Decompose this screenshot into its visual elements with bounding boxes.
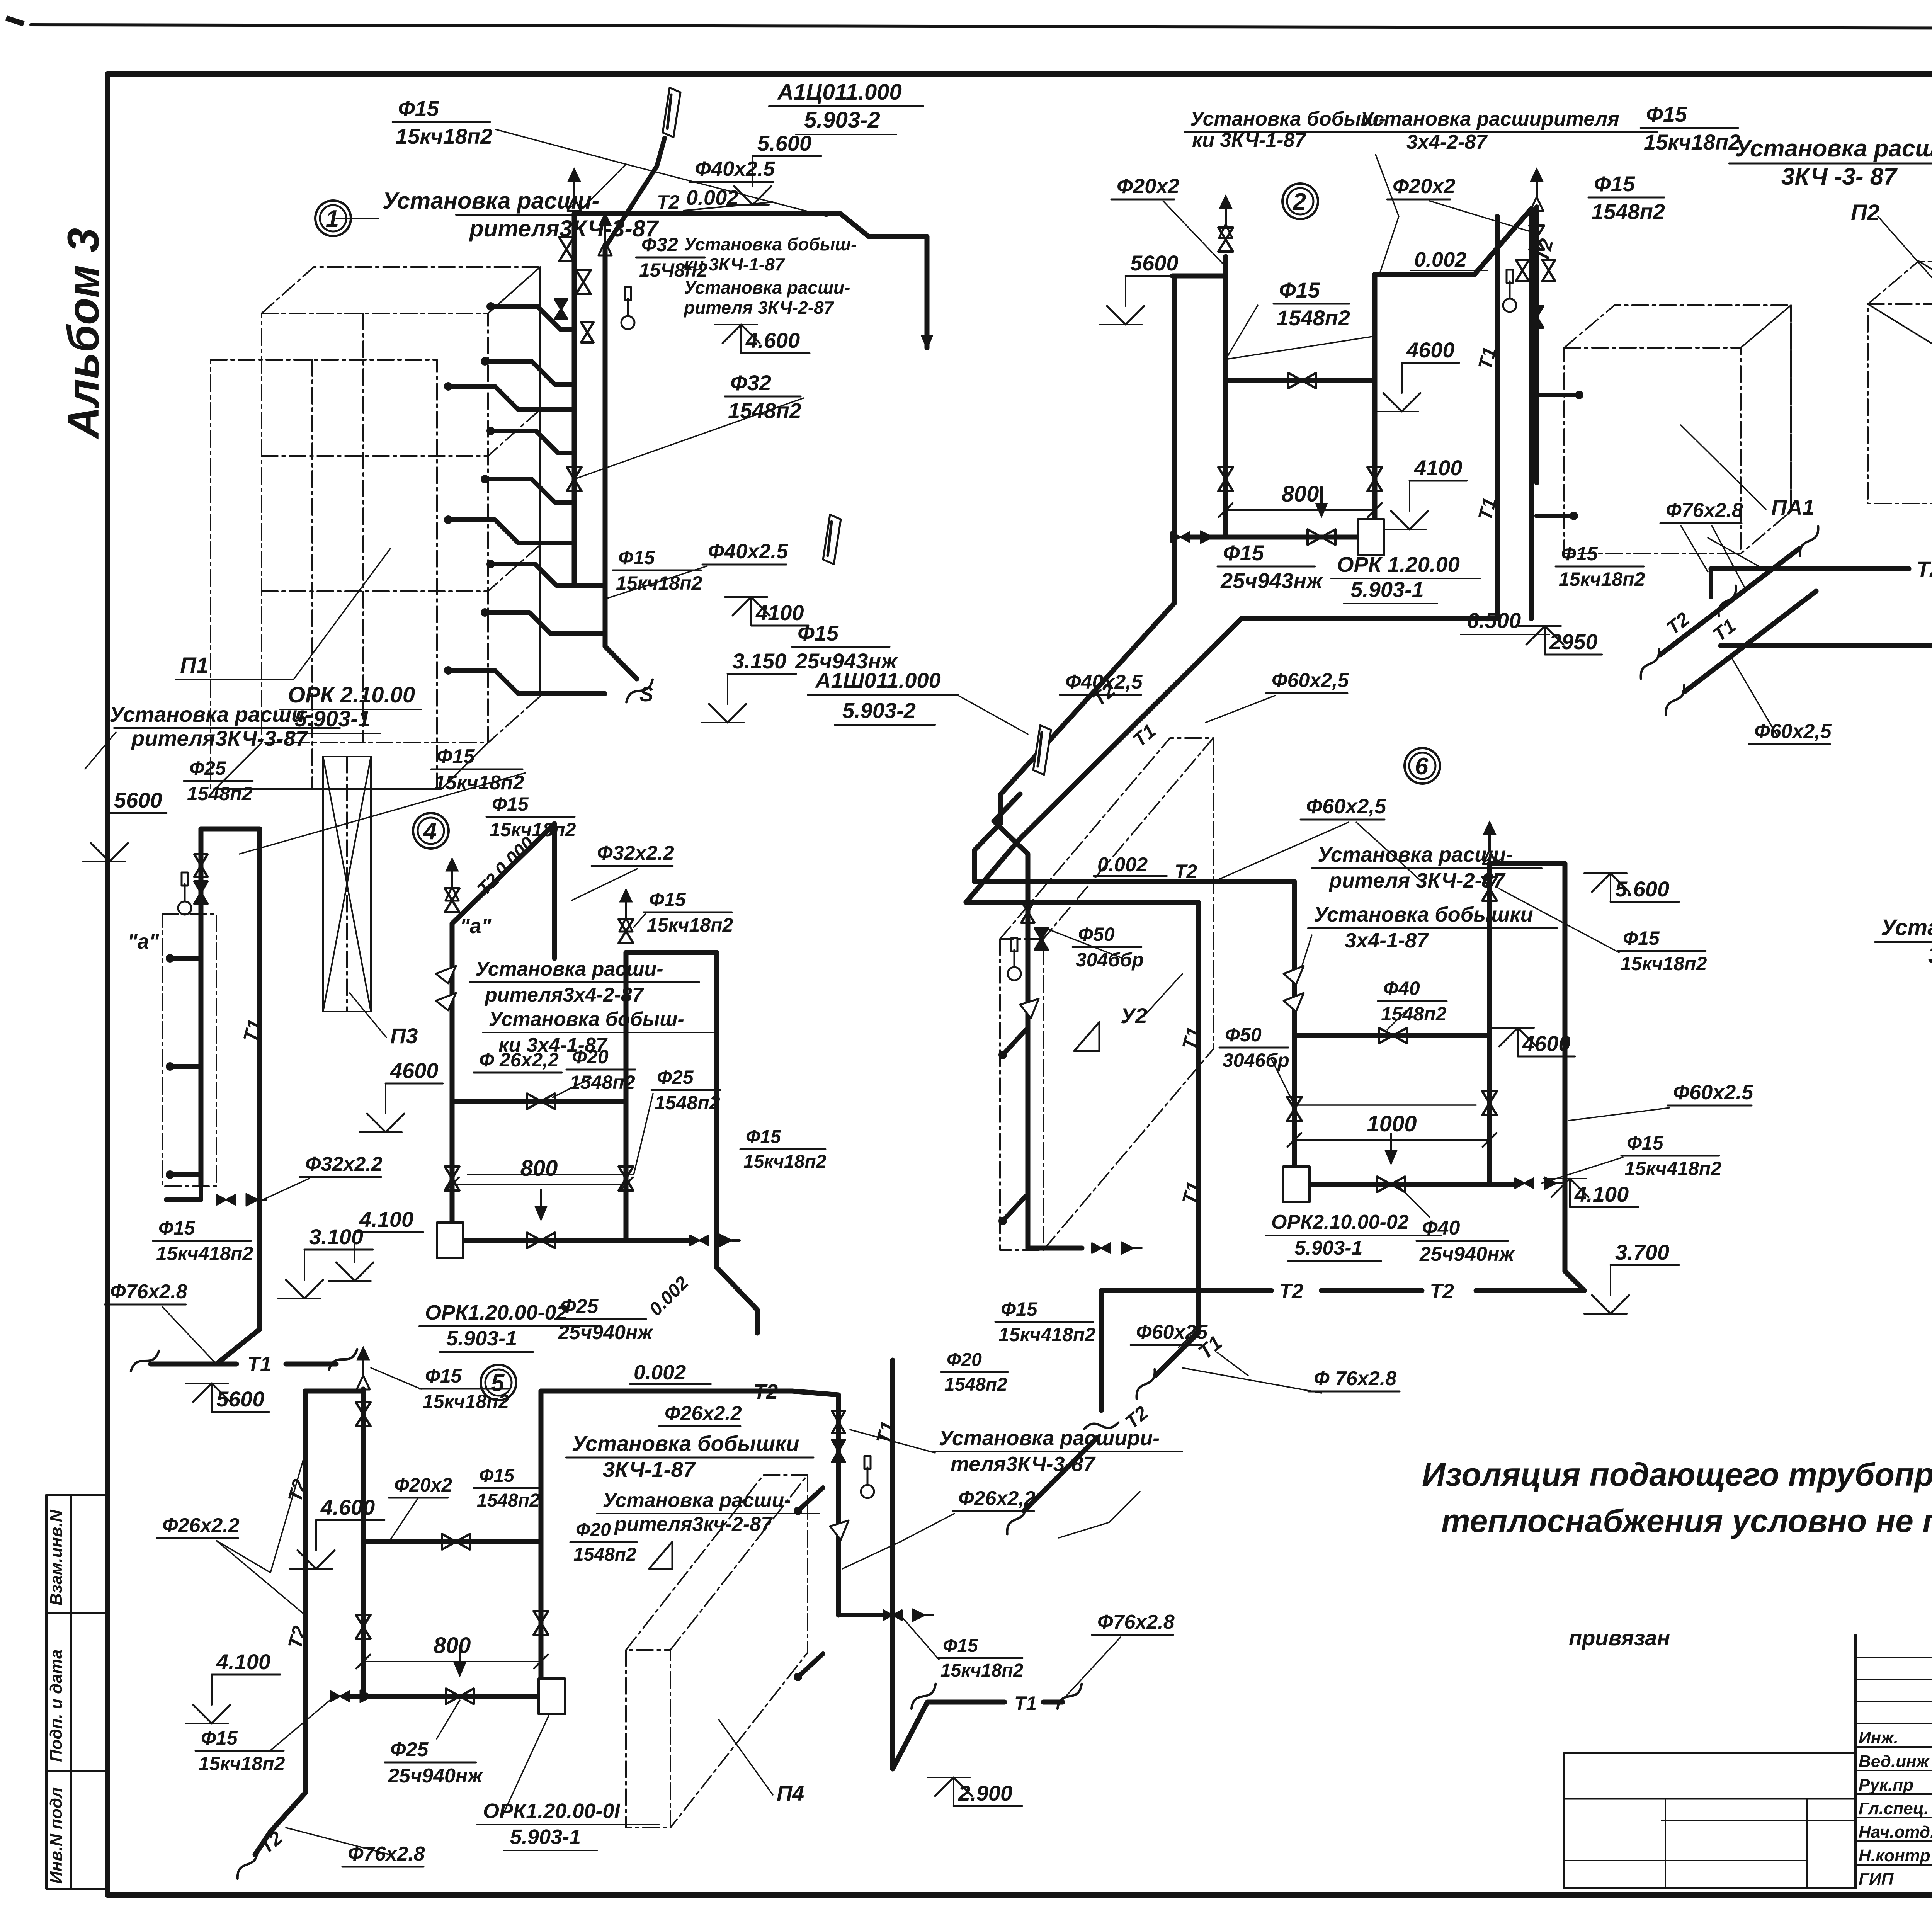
pipe Т2 main run [1711, 566, 1909, 571]
pipe T1 riser node6 [1196, 902, 1201, 1333]
svg-text:4.100: 4.100 [216, 1650, 270, 1674]
svg-text:Ф25: Ф25 [560, 1295, 599, 1318]
svg-text:15кч418п2: 15кч418п2 [998, 1324, 1095, 1345]
svg-text:Установка расши-: Установка расши- [475, 958, 663, 980]
left margin table [45, 1495, 48, 1889]
svg-text:1548п2: 1548п2 [573, 1544, 636, 1565]
svg-text:Ф15: Ф15 [618, 547, 655, 568]
svg-text:3х4-2-87: 3х4-2-87 [1406, 131, 1488, 153]
svg-text:Т2: Т2 [1917, 557, 1932, 581]
pipe manifold node2 [1189, 535, 1375, 540]
svg-text:Ф 26х2,2: Ф 26х2,2 [479, 1049, 559, 1071]
svg-text:5600: 5600 [1130, 251, 1179, 275]
svg-text:15кч18п2: 15кч18п2 [434, 772, 524, 794]
svg-text:Ф15: Ф15 [158, 1217, 196, 1239]
pipe break [230, 1850, 264, 1879]
svg-text:4600: 4600 [390, 1058, 439, 1083]
svg-text:Ф15: Ф15 [746, 1127, 781, 1147]
svg-text:рителя 3КЧ-2-87: рителя 3КЧ-2-87 [683, 298, 835, 318]
svg-text:5.903-1: 5.903-1 [1350, 577, 1424, 602]
svg-text:Ф76х2.8: Ф76х2.8 [1097, 1611, 1175, 1633]
svg-text:Установка бобыш-: Установка бобыш- [684, 234, 857, 254]
leader line [336, 218, 379, 219]
svg-text:Установка расши-: Установка расши- [1318, 843, 1513, 866]
svg-text:Установка бобышки: Установка бобышки [572, 1431, 799, 1456]
leader line [553, 1078, 591, 1097]
pipe riser T2 node1 [603, 247, 608, 646]
pipe Т1 link diagonal [966, 619, 1242, 902]
svg-text:3х4-1-87: 3х4-1-87 [1928, 943, 1932, 968]
svg-text:Ф15: Ф15 [201, 1727, 238, 1749]
svg-text:6: 6 [1415, 753, 1429, 780]
zigzag Т2 entry [994, 794, 1028, 881]
node4 main risers [450, 923, 455, 1240]
leader line [605, 566, 707, 599]
svg-text:0.002: 0.002 [634, 1361, 686, 1384]
pipe break [128, 1351, 162, 1371]
pipe cross node6 [1294, 1033, 1490, 1038]
svg-text:ОРК 1.20.00: ОРК 1.20.00 [1337, 552, 1460, 577]
leader line [1542, 1157, 1623, 1183]
svg-text:У2: У2 [1121, 1003, 1147, 1028]
svg-text:15кч18п2: 15кч18п2 [1559, 568, 1645, 590]
pipe break [1658, 685, 1692, 715]
svg-text:ГИП: ГИП [1859, 1870, 1894, 1889]
heater connection stub [485, 612, 605, 634]
svg-text:25ч940нж: 25ч940нж [388, 1765, 483, 1787]
svg-text:Ф26х2.2: Ф26х2.2 [162, 1514, 240, 1537]
vent arrow [619, 888, 633, 902]
leader line [1059, 1637, 1121, 1704]
node marker 2 [1282, 184, 1318, 219]
leader line [634, 914, 645, 927]
svg-text:Альбом 3: Альбом 3 [59, 228, 108, 440]
pipe cross connector node2 [1226, 378, 1375, 383]
valve [555, 299, 567, 319]
heater internal verticals [362, 313, 364, 743]
svg-text:Т1: Т1 [247, 1352, 272, 1376]
dimension 800 [452, 1184, 626, 1185]
a-section top run [201, 827, 260, 832]
pipe Т1 diag node6 bottom [1155, 1333, 1198, 1376]
svg-text:Нач.отд.: Нач.отд. [1859, 1823, 1932, 1842]
svg-text:А1Ш011.000: А1Ш011.000 [815, 668, 941, 692]
svg-text:5.600: 5.600 [757, 131, 811, 155]
svg-text:Установка бобышки: Установка бобышки [1314, 903, 1533, 926]
svg-text:25ч940нж: 25ч940нж [558, 1321, 653, 1344]
pipe T1 run node6 [966, 900, 1198, 905]
leader line [85, 732, 116, 769]
thermometer [861, 1485, 874, 1498]
svg-text:Ф20х2: Ф20х2 [394, 1474, 452, 1496]
svg-text:4.600: 4.600 [320, 1495, 375, 1519]
svg-text:Ф26х2.2: Ф26х2.2 [665, 1402, 742, 1425]
pipe Т2 diag node6 [1024, 1437, 1097, 1511]
svg-text:Ф15: Ф15 [1646, 102, 1687, 126]
svg-text:Взам.инв.N: Взам.инв.N [47, 1509, 66, 1605]
valve [445, 888, 459, 912]
expander marks node6 [1284, 966, 1304, 1012]
leader line [1213, 822, 1349, 882]
svg-text:Ф20х2: Ф20х2 [1393, 175, 1455, 198]
pipe Т2 drop node6 [1099, 1291, 1104, 1410]
expander node5 right [830, 1520, 849, 1540]
pipe T2 riser node2 [1172, 276, 1177, 603]
leader line [350, 993, 386, 1037]
valve [217, 1195, 235, 1205]
connection box [437, 1223, 463, 1258]
leader line [371, 1368, 421, 1389]
valve [1379, 1028, 1407, 1043]
pipe top run right node2 [1375, 209, 1531, 619]
a-section riser T1 [257, 829, 262, 1264]
valve [1377, 1177, 1405, 1192]
valve [1542, 260, 1555, 281]
svg-text:Ф40: Ф40 [1422, 1217, 1460, 1239]
pipe top jog У2 [975, 879, 1028, 884]
leader line [390, 1499, 417, 1540]
vent arrow [1219, 195, 1232, 209]
valve [356, 1402, 371, 1426]
pipe manifold node5 [350, 1694, 541, 1699]
leader line [216, 1453, 305, 1573]
svg-text:Ф40: Ф40 [1383, 978, 1420, 999]
leader line [1569, 1108, 1669, 1121]
svg-text:1548п2: 1548п2 [1592, 199, 1665, 224]
svg-text:ОРК1.20.00-0I: ОРК1.20.00-0I [483, 1799, 620, 1823]
pipe Т2 end stub [1709, 569, 1713, 597]
svg-text:Т1: Т1 [1014, 1692, 1037, 1714]
leader line [1878, 216, 1932, 348]
svg-text:Установка расши-: Установка расши- [383, 188, 599, 214]
expander symbols node4 [436, 966, 456, 1010]
valve [527, 1094, 555, 1109]
expander У2 [1020, 999, 1039, 1018]
svg-text:Установка бобышки: Установка бобышки [1881, 915, 1932, 940]
svg-text:Ф50: Ф50 [1225, 1024, 1262, 1046]
svg-text:15кч18п2: 15кч18п2 [743, 1151, 827, 1172]
svg-text:5.903-1: 5.903-1 [1294, 1237, 1362, 1259]
pipe break [1711, 586, 1744, 616]
svg-text:1548п2: 1548п2 [1277, 306, 1350, 330]
valve [527, 1233, 555, 1248]
leader line [162, 1307, 216, 1364]
svg-text:4100: 4100 [755, 600, 804, 625]
pipe T1 riser node2 [1495, 216, 1500, 619]
svg-text:Ф60х2,5: Ф60х2,5 [1272, 669, 1349, 692]
leader line [1356, 822, 1422, 882]
leader line [1182, 1368, 1321, 1393]
svg-text:ПА1: ПА1 [1771, 495, 1815, 519]
svg-text:Ф76х2.8: Ф76х2.8 [110, 1281, 187, 1303]
pipe break [1084, 1417, 1118, 1435]
svg-text:4: 4 [423, 818, 437, 845]
pipe T1 bottom node4 [216, 1264, 260, 1364]
flow arrow [921, 335, 933, 350]
valve [1482, 1091, 1497, 1115]
svg-text:4.100: 4.100 [1574, 1182, 1629, 1206]
svg-text:ки 3КЧ-1-87: ки 3КЧ-1-87 [1192, 129, 1306, 151]
connection box [1358, 519, 1384, 555]
pipe T2 right riser node6 [1563, 864, 1568, 1271]
leader line [1163, 201, 1226, 267]
thermometer [621, 316, 634, 329]
expansion tank symbol [823, 515, 841, 564]
svg-text:рителя3КЧ-3-87: рителя3КЧ-3-87 [131, 726, 309, 750]
svg-text:25ч943нж: 25ч943нж [1220, 568, 1323, 593]
valve [1308, 529, 1335, 545]
svg-text:Ф32: Ф32 [641, 234, 678, 255]
pipe right riser node2 [1372, 276, 1378, 537]
svg-text:Ф25: Ф25 [390, 1738, 429, 1761]
pipe top left node5 [305, 1389, 363, 1394]
triangle flag node5 [649, 1542, 672, 1569]
leader line [1399, 1186, 1430, 1217]
svg-text:Ф15: Ф15 [943, 1636, 978, 1656]
svg-text:800: 800 [520, 1156, 558, 1181]
valve [581, 322, 594, 342]
leader line [437, 1700, 460, 1739]
valve [1092, 1243, 1111, 1253]
heater unit box [1868, 262, 1932, 503]
pipe top run node5 [541, 1389, 792, 1394]
pipe vertical У2 [1026, 881, 1031, 1248]
pipe T2 riser node5 [303, 1391, 308, 1793]
leader line [1217, 1352, 1248, 1376]
heater connection stub [491, 564, 605, 585]
leader line [574, 398, 804, 479]
heater connection stub [1537, 393, 1579, 397]
pipe bottom У2 [1028, 1246, 1082, 1251]
scan speck top-left [5, 15, 25, 26]
valve [832, 1440, 845, 1462]
leader line [1731, 657, 1777, 736]
svg-text:Ф26х2,2: Ф26х2,2 [958, 1487, 1036, 1510]
valve [1516, 260, 1529, 281]
svg-text:5.903-2: 5.903-2 [842, 698, 916, 723]
svg-text:15кч18п2: 15кч18п2 [396, 124, 492, 148]
svg-text:5600: 5600 [114, 788, 162, 812]
riser with valves node2 [1534, 207, 1539, 483]
pipe diag break Т2 [1660, 549, 1799, 655]
pipe break [906, 1684, 941, 1709]
svg-text:А1Ц011.000: А1Ц011.000 [777, 80, 902, 105]
svg-text:Ф60х2.5: Ф60х2.5 [1673, 1081, 1753, 1104]
svg-text:Ф15: Ф15 [798, 621, 839, 645]
pipe break [1129, 1369, 1162, 1399]
svg-text:1548п2: 1548п2 [187, 783, 253, 804]
valve [567, 467, 582, 491]
svg-text:Установка бобыш-: Установка бобыш- [489, 1008, 684, 1031]
svg-text:Т2: Т2 [1175, 861, 1197, 882]
pipe bottom diag T2 node4 [717, 1267, 757, 1333]
svg-text:3.700: 3.700 [1615, 1240, 1669, 1264]
valve [446, 1689, 474, 1704]
svg-text:Ф20: Ф20 [576, 1520, 611, 1540]
П4 slab stubs [798, 1488, 823, 1511]
svg-text:Ф15: Ф15 [1594, 172, 1635, 196]
svg-text:0.002: 0.002 [1414, 248, 1466, 271]
svg-text:15кч418п2: 15кч418п2 [156, 1243, 253, 1264]
svg-text:Гл.спец.: Гл.спец. [1859, 1799, 1929, 1818]
triangle flag node6 [1074, 1022, 1099, 1051]
svg-text:Ф20: Ф20 [572, 1046, 609, 1068]
svg-text:Ф40х2.5: Ф40х2.5 [695, 157, 775, 180]
valve [1530, 306, 1543, 328]
svg-text:4100: 4100 [1414, 456, 1463, 480]
pipe top run node1 [574, 214, 927, 348]
thermometer [1503, 299, 1516, 312]
pipe stub node5 right [838, 1613, 885, 1617]
a-section pipe [199, 829, 204, 1186]
a-section bottom [166, 1186, 201, 1200]
svg-text:"а": "а" [128, 930, 160, 953]
valve [194, 854, 207, 877]
thermometer [178, 901, 191, 915]
pipe left loop node6 [1292, 882, 1297, 1184]
svg-text:3х4-1-87: 3х4-1-87 [1345, 929, 1429, 952]
svg-text:Ф50: Ф50 [1078, 923, 1115, 945]
svg-text:Ф40х2.5: Ф40х2.5 [708, 540, 788, 563]
vent arrow [1530, 168, 1543, 182]
svg-text:Ф15: Ф15 [1627, 1132, 1664, 1154]
svg-text:Ф15: Ф15 [425, 1365, 462, 1387]
flow arrow [535, 1206, 547, 1221]
heater casing box [211, 360, 437, 789]
П3 heater slab [323, 757, 371, 1012]
svg-text:Подп. и дата: Подп. и дата [47, 1650, 66, 1762]
pipe left riser node2 [1223, 257, 1228, 537]
heater connection stub [485, 361, 574, 384]
pipe from expansion tank [605, 138, 665, 247]
heater connection stub [1537, 514, 1574, 518]
top paper edge line [31, 25, 1932, 29]
leader line [850, 1430, 935, 1453]
svg-text:Установка расшири-: Установка расшири- [939, 1427, 1160, 1450]
vent arrow [599, 212, 612, 226]
svg-text:Ф60х2,5: Ф60х2,5 [1306, 795, 1386, 818]
pipe bottom run node2 [1242, 616, 1497, 621]
svg-text:Ф15: Ф15 [479, 1466, 515, 1486]
pipe manifold node4 [452, 1238, 626, 1243]
heater connection stub [491, 431, 574, 453]
svg-text:Ф15: Ф15 [1001, 1298, 1038, 1320]
a-section box [162, 914, 216, 1186]
svg-text:15кч18п2: 15кч18п2 [490, 819, 576, 840]
pipe cross node5 [363, 1539, 541, 1544]
node marker 6 [1405, 748, 1440, 784]
leader line [286, 1828, 390, 1855]
pipe manifold node6 [1306, 1182, 1490, 1187]
vent arrow [1483, 821, 1496, 835]
leader line [1298, 935, 1312, 978]
dimension 800 [363, 1661, 541, 1662]
heater box diagonal 2 [1868, 304, 1932, 386]
heater bottom face [215, 743, 262, 789]
leader line [1043, 927, 1122, 958]
svg-text:Ф25: Ф25 [189, 757, 226, 779]
leader line [1712, 526, 1747, 591]
svg-text:1000: 1000 [1367, 1111, 1417, 1136]
thermometer [1008, 967, 1021, 980]
leader line [719, 1719, 773, 1795]
svg-text:Ф15: Ф15 [492, 793, 529, 815]
valve [576, 270, 591, 294]
pipe Т1 main run [1721, 643, 1932, 648]
svg-text:Инв.N подл: Инв.N подл [47, 1787, 66, 1884]
valve [442, 1534, 470, 1549]
svg-text:Т2: Т2 [657, 191, 680, 213]
svg-text:ки 3КЧ-1-87: ки 3КЧ-1-87 [684, 254, 786, 274]
svg-text:Вед.инж: Вед.инж [1859, 1752, 1930, 1771]
vent arrow [357, 1346, 370, 1360]
svg-text:800: 800 [1282, 481, 1319, 507]
pipe Т1 run node4 [151, 1362, 236, 1367]
valve [1218, 467, 1233, 491]
pipe Т1 stub right [1720, 634, 1721, 646]
svg-text:15кч18п2: 15кч18п2 [1621, 953, 1707, 975]
svg-text:5.903-1: 5.903-1 [446, 1327, 517, 1350]
svg-text:П2: П2 [1851, 200, 1879, 225]
pipe right riser node6 [1487, 864, 1492, 1184]
svg-text:Ф15: Ф15 [649, 889, 686, 910]
leader line [496, 129, 626, 216]
valve [445, 1167, 459, 1190]
heater unit box [262, 267, 540, 743]
svg-text:Ф32: Ф32 [730, 371, 771, 395]
pipe manifold ext node4 [626, 1238, 692, 1243]
svg-text:3.150: 3.150 [732, 649, 786, 673]
svg-text:Ф15: Ф15 [1223, 541, 1264, 565]
П4 heater slab [626, 1475, 808, 1828]
pipe break [1000, 1505, 1033, 1534]
valve [534, 1611, 548, 1635]
svg-text:Ф15: Ф15 [398, 96, 439, 121]
svg-text:Ф15: Ф15 [1279, 278, 1320, 302]
leader line [900, 1615, 939, 1660]
svg-text:2950: 2950 [1549, 629, 1598, 654]
svg-text:рителя3кч-2-87: рителя3кч-2-87 [614, 1513, 773, 1536]
svg-text:Установка расши-: Установка расши- [684, 277, 850, 298]
svg-text:Установка расши-: Установка расши- [109, 702, 312, 726]
valve [356, 1615, 371, 1639]
pipe manifold ext node6 [1490, 1182, 1515, 1187]
heater connection stub [448, 670, 605, 694]
svg-text:15кч18п2: 15кч18п2 [423, 1391, 509, 1412]
svg-text:привязан: привязан [1569, 1626, 1670, 1650]
pipe riser3 node5 [539, 1391, 544, 1696]
pipe riser node5 right [836, 1395, 841, 1615]
valve [1515, 1178, 1534, 1188]
svg-text:рителя3х4-2-87: рителя3х4-2-87 [484, 984, 644, 1006]
svg-text:Ф20х2: Ф20х2 [1117, 175, 1179, 198]
svg-text:Ф60х2,5: Ф60х2,5 [1754, 720, 1832, 743]
svg-text:Ф 76х2.8: Ф 76х2.8 [1314, 1367, 1396, 1390]
pipe break [1052, 1684, 1087, 1709]
pipe break [1633, 649, 1667, 679]
pipe T2 bottom run node6 [1101, 1288, 1271, 1293]
svg-text:0.002: 0.002 [1097, 854, 1148, 876]
left extension table [1564, 1752, 1855, 1754]
pipe T2 run node6 [975, 879, 1294, 884]
У2 stubs [1003, 1030, 1026, 1055]
svg-text:Ф15: Ф15 [437, 745, 475, 768]
svg-text:5600: 5600 [216, 1387, 265, 1411]
pipe break [622, 680, 657, 702]
svg-text:Н.контр: Н.контр [1859, 1846, 1930, 1865]
svg-text:25ч940нж: 25ч940нж [1419, 1243, 1515, 1265]
flow arrow [454, 1662, 466, 1677]
